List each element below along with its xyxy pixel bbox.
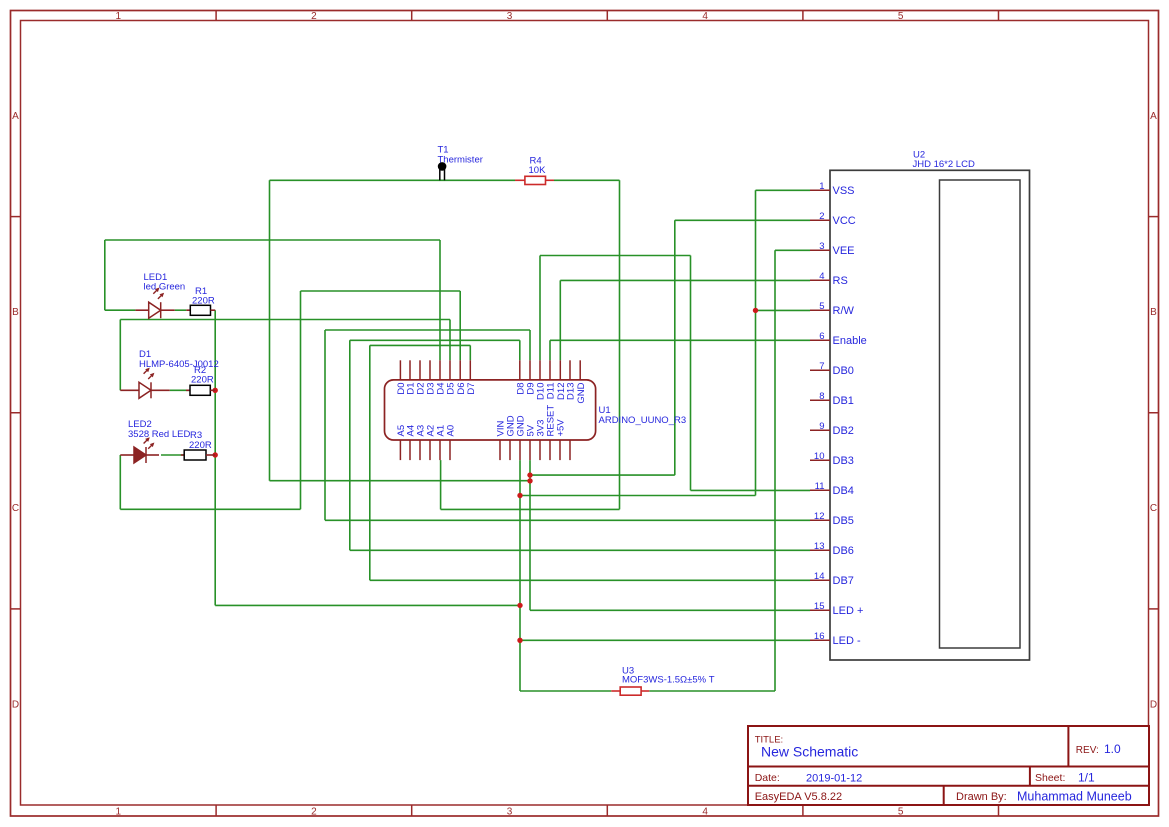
svg-text:4: 4 [702, 11, 708, 22]
wire [324, 330, 326, 520]
svg-text:ARDINO_UUNO_R3: ARDINO_UUNO_R3 [599, 415, 687, 426]
svg-text:DB1: DB1 [833, 395, 854, 407]
svg-text:DB6: DB6 [833, 545, 854, 557]
svg-text:DB2: DB2 [833, 425, 854, 437]
wire [520, 495, 756, 497]
wire [459, 291, 461, 360]
svg-text:New Schematic: New Schematic [761, 744, 858, 760]
resistor R2 [186, 365, 215, 395]
svg-text:DB0: DB0 [833, 365, 854, 377]
wire [519, 340, 521, 360]
wire [775, 249, 810, 251]
svg-text:R/W: R/W [833, 305, 855, 317]
wire [690, 256, 692, 491]
IC U1 ARDINO_UUNO_R3 [385, 360, 687, 460]
svg-text:1: 1 [819, 181, 824, 192]
svg-text:13: 13 [814, 541, 825, 552]
junction [527, 472, 532, 477]
svg-text:Date:: Date: [755, 772, 780, 784]
svg-text:C: C [1150, 503, 1157, 514]
svg-text:D: D [12, 699, 19, 710]
svg-text:Muhammad Muneeb: Muhammad Muneeb [1017, 789, 1132, 803]
svg-text:JHD 16*2 LCD: JHD 16*2 LCD [913, 159, 975, 170]
svg-text:B: B [1150, 307, 1157, 318]
wire [269, 180, 271, 480]
svg-text:220R: 220R [192, 296, 215, 307]
wire [520, 690, 611, 692]
svg-text:8: 8 [819, 391, 824, 402]
junction [517, 603, 522, 608]
svg-text:A0: A0 [446, 425, 457, 437]
svg-text:Enable: Enable [833, 335, 867, 347]
svg-text:220R: 220R [191, 375, 214, 386]
svg-text:LED +: LED + [833, 605, 864, 617]
svg-text:DB3: DB3 [833, 455, 854, 467]
wire [539, 256, 541, 361]
wire [349, 340, 351, 550]
wire [120, 508, 300, 510]
junction [213, 388, 218, 393]
wire [550, 339, 810, 341]
resistor R1 [186, 286, 215, 315]
svg-text:3: 3 [507, 11, 513, 22]
wire [370, 579, 810, 581]
wire [559, 280, 561, 360]
svg-text:3: 3 [507, 807, 513, 818]
LED LED1 [135, 272, 185, 318]
wire [449, 320, 451, 361]
svg-text:DB7: DB7 [833, 575, 854, 587]
wire [440, 460, 442, 509]
wire [649, 690, 775, 692]
svg-text:B: B [12, 307, 19, 318]
svg-text:15: 15 [814, 601, 825, 612]
wire [119, 320, 121, 391]
svg-text:DB4: DB4 [833, 485, 854, 497]
svg-text:2: 2 [311, 807, 317, 818]
svg-text:Thermister: Thermister [438, 155, 483, 166]
wire [529, 460, 531, 610]
wire [270, 179, 516, 181]
svg-text:220R: 220R [189, 440, 212, 451]
svg-text:D7: D7 [466, 383, 477, 395]
wire [675, 219, 810, 221]
wire [214, 310, 216, 605]
resistor R3 [181, 430, 215, 460]
svg-text:HLMP-6405-J0012: HLMP-6405-J0012 [139, 359, 219, 370]
svg-text:A: A [1150, 111, 1157, 122]
svg-text:Drawn By:: Drawn By: [956, 791, 1007, 803]
svg-text:MOF3WS-1.5Ω±5% T: MOF3WS-1.5Ω±5% T [622, 675, 715, 686]
svg-text:5: 5 [898, 11, 904, 22]
svg-text:2: 2 [819, 211, 824, 222]
wire [270, 480, 531, 482]
LED D1 [120, 349, 218, 398]
svg-text:5: 5 [819, 301, 824, 312]
wire [439, 240, 441, 360]
svg-text:6: 6 [819, 331, 824, 342]
svg-text:2: 2 [311, 11, 317, 22]
wire [325, 519, 810, 521]
junction [527, 478, 532, 483]
wire [170, 389, 190, 391]
LED LED2 [120, 419, 190, 463]
svg-text:5: 5 [898, 807, 904, 818]
wire [756, 309, 811, 311]
svg-text:9: 9 [819, 421, 824, 432]
wire [104, 240, 106, 310]
wire [530, 474, 675, 476]
svg-text:10K: 10K [529, 165, 547, 176]
wire [370, 344, 471, 346]
wire [301, 290, 461, 292]
wire [519, 460, 521, 691]
svg-text:VSS: VSS [833, 185, 855, 197]
svg-text:1: 1 [116, 807, 122, 818]
svg-text:12: 12 [814, 511, 825, 522]
wire [540, 255, 691, 257]
wire [530, 609, 810, 611]
svg-text:EasyEDA V5.8.22: EasyEDA V5.8.22 [755, 791, 842, 803]
wire [560, 279, 810, 281]
wire [120, 319, 450, 321]
svg-text:14: 14 [814, 571, 825, 582]
svg-text:1/1: 1/1 [1078, 771, 1095, 785]
wire [441, 508, 620, 510]
wire [756, 189, 811, 191]
junction [753, 308, 758, 313]
wire [350, 339, 520, 341]
svg-text:led Green: led Green [144, 282, 186, 293]
svg-text:1: 1 [116, 11, 122, 22]
svg-text:+5V: +5V [556, 419, 567, 437]
wire [175, 309, 187, 311]
svg-text:LED -: LED - [833, 635, 861, 647]
wire [215, 604, 520, 606]
svg-text:2019-01-12: 2019-01-12 [806, 773, 862, 785]
wire [161, 454, 184, 456]
wire [325, 329, 530, 331]
svg-text:10: 10 [814, 451, 825, 462]
title block [748, 726, 1149, 805]
wire [619, 180, 621, 509]
wire [119, 455, 121, 509]
wire [755, 190, 757, 495]
wire [520, 639, 810, 641]
wire [691, 489, 811, 491]
thermistor T1 [438, 145, 483, 181]
svg-text:VCC: VCC [833, 215, 856, 227]
wire [554, 179, 620, 181]
svg-text:1.0: 1.0 [1104, 742, 1121, 756]
svg-text:C: C [12, 503, 19, 514]
svg-text:Sheet:: Sheet: [1035, 772, 1065, 784]
wire [549, 340, 551, 360]
svg-text:VEE: VEE [833, 245, 855, 257]
svg-text:REV:: REV: [1076, 745, 1099, 756]
wire [529, 330, 531, 360]
wire [300, 291, 302, 509]
junction [517, 638, 522, 643]
resistor U3 [611, 666, 714, 696]
svg-text:3528 Red LED: 3528 Red LED [128, 429, 190, 440]
svg-text:4: 4 [819, 271, 824, 282]
wire [105, 309, 136, 311]
wire [774, 250, 776, 691]
wire [674, 220, 676, 475]
junction [517, 493, 522, 498]
svg-text:11: 11 [815, 481, 825, 492]
svg-text:7: 7 [819, 361, 824, 372]
wire [350, 549, 810, 551]
svg-text:DB5: DB5 [833, 515, 854, 527]
wire [469, 345, 471, 360]
resistor R4 [515, 155, 554, 184]
svg-text:A: A [12, 111, 19, 122]
svg-text:GND: GND [576, 382, 587, 403]
svg-text:D: D [1150, 699, 1157, 710]
svg-text:4: 4 [702, 807, 708, 818]
svg-text:3: 3 [819, 241, 824, 252]
svg-text:RS: RS [833, 275, 848, 287]
svg-text:16: 16 [814, 631, 825, 642]
IC U2 JHD 16*2 LCD [810, 150, 1030, 661]
wire [369, 345, 371, 580]
wire [105, 239, 440, 241]
junction [213, 452, 218, 457]
